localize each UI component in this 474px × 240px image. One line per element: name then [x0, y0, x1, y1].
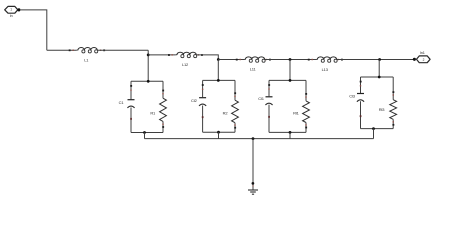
svg-text:RI1: RI1	[293, 111, 300, 116]
node dot bus-ground tee	[252, 137, 255, 140]
wire junction2 vertical to branch2	[217, 60, 219, 81]
svg-text:L13: L13	[322, 67, 329, 72]
svg-text:CI2: CI2	[191, 98, 198, 103]
capacitor C1	[119, 81, 135, 132]
capacitor C4	[349, 77, 364, 129]
port P2 "In1"	[417, 51, 431, 63]
wire row3 right of L4 to port2	[337, 59, 415, 61]
svg-text:In: In	[10, 14, 13, 18]
resistor R4	[379, 77, 397, 129]
svg-text:L1: L1	[84, 58, 89, 63]
inductor L4	[308, 57, 343, 72]
svg-text:CI3: CI3	[349, 94, 356, 99]
port P1 "In"	[5, 6, 18, 18]
wire branch1 bottom	[131, 132, 163, 134]
inductor L1	[69, 48, 105, 63]
node dot J3	[289, 58, 292, 61]
wire row1 right of L1	[98, 49, 149, 51]
wire ground bus	[145, 138, 374, 140]
wire branch4 drop to bus	[373, 129, 375, 139]
red pin mark ground	[252, 185, 253, 186]
wire row3 between L3 and L4	[265, 59, 316, 61]
capacitor C2	[191, 80, 206, 132]
wire row2 right of L2 to corner	[196, 55, 218, 60]
wire row1 left of L1	[47, 49, 77, 51]
inductor L2	[168, 52, 203, 67]
wire branch2 bottom	[203, 131, 235, 133]
wire branch1 drop to bus	[144, 133, 146, 139]
node dot branch1 top	[147, 80, 150, 83]
resistor R1	[150, 81, 166, 132]
node dot at port P1	[17, 8, 20, 11]
ground symbol	[248, 190, 258, 194]
node dot J1 tee	[147, 54, 150, 57]
svg-text:In1: In1	[420, 51, 425, 55]
inductor L3	[236, 57, 271, 72]
wire branch3 bottom	[269, 131, 306, 133]
capacitor C3	[258, 80, 272, 132]
node dot branch4 top	[378, 76, 381, 79]
wire row2 left of L2	[148, 54, 176, 56]
wire junction1 vertical	[147, 50, 149, 81]
wire ground stem	[252, 139, 254, 190]
svg-text:L11: L11	[250, 67, 257, 72]
node dot at port P2	[413, 58, 416, 61]
wire branch3 drop to bus	[289, 132, 291, 138]
node dot branch4 bottom	[372, 127, 375, 130]
node dot J4	[378, 58, 381, 61]
svg-text:L12: L12	[182, 62, 189, 67]
wire junction3 vertical	[289, 60, 291, 81]
svg-text:C1: C1	[119, 100, 125, 105]
node dot branch1 bottom	[143, 131, 146, 134]
node dot branch2 top	[217, 79, 220, 82]
wire row3 left of L3	[218, 59, 244, 61]
node dot J2 tee	[217, 58, 220, 61]
resistor R2	[223, 80, 239, 132]
node dot branch2 bottom	[217, 131, 220, 134]
wire branch1 top	[131, 80, 163, 82]
wire junction4 vertical	[378, 60, 380, 78]
wire branch2 drop to bus	[218, 132, 220, 138]
svg-text:R2: R2	[223, 111, 229, 116]
wire branch4 bottom	[361, 128, 394, 130]
node dot branch3 bottom	[289, 131, 292, 134]
svg-text:R1: R1	[150, 110, 156, 115]
wire port1 to corner	[21, 10, 47, 50]
wire branch2 top	[203, 79, 235, 81]
resistor R3	[293, 80, 309, 132]
wire branch4 top	[361, 76, 394, 78]
svg-text:RI3: RI3	[379, 107, 386, 112]
node dot ground pin	[252, 182, 255, 185]
node dot branch3 top	[289, 79, 292, 82]
svg-text:CI1: CI1	[258, 96, 265, 101]
wire branch3 top	[269, 79, 306, 81]
